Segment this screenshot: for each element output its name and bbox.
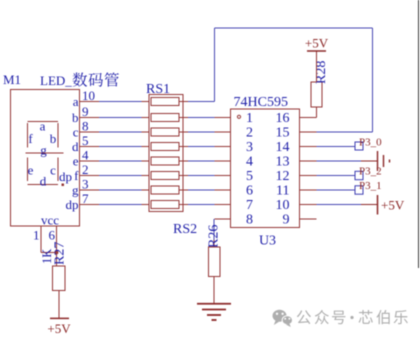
M1 pin f stub	[80, 175, 100, 177]
wire U3 pin 14 to port P3_0	[317, 146, 356, 148]
M1 pin b stub	[80, 117, 100, 119]
svg-text:4: 4	[82, 148, 89, 163]
wire R26 to ground	[213, 277, 215, 304]
U3 pin 3 stub	[215, 146, 231, 148]
label 数 (CJK)	[73, 73, 88, 87]
svg-text:M1: M1	[3, 72, 21, 87]
RS1 resistor element 8	[151, 201, 179, 209]
svg-text:3: 3	[82, 177, 89, 192]
port P3_1 square	[355, 186, 363, 194]
svg-text:d: d	[72, 139, 79, 154]
wire seg-e M1 to RS1	[99, 160, 142, 162]
wire U3 pin 12 to port P3_2	[317, 175, 356, 177]
svg-text:2: 2	[246, 126, 253, 141]
svg-text:14: 14	[276, 140, 290, 155]
RS1 resistor element 1	[151, 98, 179, 106]
RS1 left pin stub 6	[142, 175, 150, 177]
watermark WeChat logo	[273, 310, 293, 327]
RS1 left pin stub 8	[142, 204, 150, 206]
wire +5V to R28	[316, 51, 318, 82]
power +5V bar (top)	[307, 50, 326, 52]
svg-text:8: 8	[82, 119, 89, 134]
junction dot	[55, 251, 59, 255]
RS1 left pin stub 3	[142, 131, 150, 133]
watermark char 众	[315, 310, 329, 324]
svg-text:f: f	[28, 131, 33, 146]
svg-text:P3_2: P3_2	[359, 166, 382, 178]
svg-text:b: b	[50, 131, 57, 146]
svg-text:+5V: +5V	[47, 321, 71, 336]
svg-text:RS2: RS2	[173, 222, 197, 237]
wire right drop to pin 15	[372, 28, 374, 132]
svg-text:16: 16	[276, 111, 290, 126]
wire seg-d RS1 to U3 pin 3	[188, 146, 215, 148]
RS1 right pin stub 3	[179, 131, 188, 133]
ground bar 4	[212, 319, 217, 321]
wire U3 pin 10 to +5V	[317, 204, 362, 206]
wire seg-c M1 to RS1	[99, 131, 142, 133]
label 码 (CJK)	[88, 73, 103, 87]
watermark char 芯	[359, 310, 373, 324]
svg-text:P3_0: P3_0	[359, 137, 382, 149]
U3 pin 6 stub	[215, 189, 231, 191]
U3 pin 7 stub	[215, 204, 231, 206]
wire U3 pin 11 to port P3_1	[317, 189, 356, 191]
wire seg-e RS1 to U3 pin 4	[188, 160, 215, 162]
M1 pin a stub	[80, 101, 100, 103]
U3 pin 10 stub	[300, 204, 317, 206]
svg-text:6: 6	[49, 228, 56, 243]
svg-text:+5V: +5V	[381, 198, 405, 213]
svg-text:5: 5	[246, 169, 253, 184]
wire R28 to pin 16	[316, 107, 318, 118]
watermark char 号	[332, 311, 345, 325]
svg-text:15: 15	[276, 126, 290, 141]
watermark char 伯	[377, 310, 390, 324]
RS1 right pin stub 2	[179, 117, 188, 119]
RS1 left pin stub 2	[142, 117, 150, 119]
wire top horizontal	[215, 27, 373, 29]
svg-text:5: 5	[82, 133, 89, 148]
wire seg-a M1 to RS1	[99, 101, 142, 103]
M1 pin c stub	[80, 131, 100, 133]
svg-text:c: c	[50, 163, 56, 178]
segment d bar	[28, 184, 59, 186]
RS1 resistor element 6	[151, 172, 179, 180]
svg-text:b: b	[72, 110, 79, 125]
RS1 left pin stub 7	[142, 189, 150, 191]
svg-text:9: 9	[283, 213, 290, 228]
segment a bar	[28, 121, 59, 123]
U3 pin 14 stub	[300, 146, 317, 148]
ground lead (pin 13)	[361, 160, 377, 162]
svg-text:dp: dp	[59, 169, 72, 184]
U3 pin 13 stub	[300, 160, 317, 162]
U3 pin 11 stub	[300, 189, 317, 191]
watermark char 公	[297, 310, 311, 324]
wire seg-g M1 to RS1	[99, 189, 142, 191]
svg-text:R26: R26	[207, 225, 222, 248]
svg-text:7: 7	[82, 191, 89, 206]
IC U3 body	[231, 109, 300, 228]
segment f bar	[27, 123, 29, 148]
U3 pin 5 stub	[215, 175, 231, 177]
wire seg-g RS1 to U3 pin 6	[188, 189, 215, 191]
svg-text:e: e	[73, 154, 79, 169]
svg-text:P3_1: P3_1	[359, 180, 382, 192]
svg-text:3: 3	[246, 140, 253, 155]
wire seg-c RS1 to U3 pin 2	[188, 131, 215, 133]
ground bar 1	[197, 303, 231, 305]
wire seg-a RS1 to riser	[188, 101, 215, 103]
RS1 right pin stub 4	[179, 146, 188, 148]
M1 pin e stub	[80, 160, 100, 162]
segment e bar	[27, 158, 29, 182]
segment dp dot	[62, 184, 65, 187]
svg-text:1: 1	[246, 111, 253, 126]
U3 pin 4 stub	[215, 160, 231, 162]
U3 pin 2 stub	[215, 131, 231, 133]
wire seg-f M1 to RS1	[99, 175, 142, 177]
svg-text:10: 10	[276, 198, 290, 213]
RS1 right pin stub 7	[179, 189, 188, 191]
wire seg-dp RS1 to U3 pin 7	[188, 204, 215, 206]
svg-text:a: a	[73, 94, 79, 109]
wire seg-dp M1 to RS1	[99, 204, 142, 206]
window border line	[418, 0, 420, 268]
RS1 resistor element 2	[151, 114, 179, 122]
ground bar 2 (rotated)	[383, 155, 385, 167]
U3 pin 1 stub	[215, 117, 231, 119]
power +5V bar (bottom)	[50, 317, 69, 319]
segment b bar	[57, 123, 59, 148]
watermark char 乐	[394, 310, 408, 324]
RS1 right pin stub 6	[179, 175, 188, 177]
RS1 right pin stub 8	[179, 204, 188, 206]
svg-text:R27: R27	[53, 242, 68, 265]
ground bar 3 (rotated)	[389, 160, 391, 163]
svg-text:a: a	[40, 119, 46, 134]
port P3_2 square	[355, 171, 363, 179]
svg-text:1: 1	[33, 228, 40, 243]
wire R27 to +5V	[58, 291, 60, 319]
svg-text:13: 13	[276, 155, 290, 170]
port P3_0 square	[355, 142, 363, 150]
svg-text:dp: dp	[66, 197, 79, 212]
U3 pin 16 stub	[300, 117, 317, 119]
wire U3 pin 8 to R26	[213, 219, 215, 240]
svg-text:f: f	[74, 168, 79, 183]
M1 pin 6 lead to R27	[56, 226, 58, 266]
resistor R26 body	[209, 247, 221, 277]
svg-text:vcc: vcc	[41, 213, 59, 228]
wire seg-d M1 to RS1	[99, 146, 142, 148]
segment g bar	[26, 152, 64, 154]
wire seg-f RS1 to U3 pin 5	[188, 175, 215, 177]
wire seg-b M1 to RS1	[99, 117, 142, 119]
svg-text:6: 6	[246, 184, 253, 199]
RS1 resistor element 7	[151, 186, 179, 194]
wire U3 pin 13 to ground	[317, 160, 362, 162]
U3 pin 9 stub	[300, 218, 317, 220]
U3 pin 15 stub	[300, 131, 317, 133]
U3 pin 8 stub	[215, 218, 231, 220]
M1 pin dp stub	[80, 204, 100, 206]
ground bar 3	[207, 314, 221, 316]
RS1 left pin stub 4	[142, 146, 150, 148]
watermark middle dot	[350, 316, 353, 319]
RS1 right pin stub 1	[179, 101, 188, 103]
resistor-pack RS1 body	[149, 95, 183, 212]
M1 pin d stub	[80, 146, 100, 148]
svg-text:74HC595: 74HC595	[234, 95, 288, 110]
segment c bar	[57, 158, 59, 182]
svg-text:g: g	[72, 183, 79, 198]
R26 top lead	[213, 240, 215, 247]
power +5V bar (right)	[377, 195, 379, 215]
svg-text:e: e	[28, 163, 34, 178]
svg-text:9: 9	[82, 104, 89, 119]
svg-text:LED_: LED_	[40, 73, 72, 88]
RS1 left pin stub 5	[142, 160, 150, 162]
wire riser at x=214	[214, 28, 216, 102]
U3 pin 1 dot circle	[237, 115, 240, 118]
svg-text:g: g	[40, 143, 47, 158]
wire into U3 pin 15	[317, 131, 373, 133]
M1 pin 1 lead	[40, 226, 42, 253]
RS1 resistor element 5	[151, 157, 179, 165]
power +5V lead (right)	[361, 204, 377, 206]
resistor R28 body	[311, 82, 322, 107]
svg-text:d: d	[40, 174, 47, 189]
svg-text:U3: U3	[259, 234, 276, 249]
RS1 resistor element 4	[151, 143, 179, 151]
svg-text:11: 11	[276, 184, 289, 199]
svg-text:12: 12	[276, 169, 290, 184]
wire pin1 to pin6 net	[41, 252, 57, 254]
U3 pin 12 stub	[300, 175, 317, 177]
wire seg-b RS1 to U3 pin 1	[188, 117, 215, 119]
display M1 body	[11, 90, 80, 227]
svg-text:4: 4	[246, 155, 253, 170]
svg-text:7: 7	[246, 198, 253, 213]
RS1 left pin stub 1	[142, 101, 150, 103]
svg-text:+5V: +5V	[305, 36, 329, 51]
ground bar 1 (rotated)	[377, 151, 379, 171]
resistor R27 body	[53, 266, 66, 291]
RS1 resistor element 3	[151, 128, 179, 136]
RS1 right pin stub 5	[179, 160, 188, 162]
M1 pin g stub	[80, 189, 100, 191]
ground bar 2	[202, 309, 226, 311]
svg-text:2: 2	[82, 162, 89, 177]
svg-text:c: c	[73, 125, 79, 140]
svg-text:8: 8	[246, 213, 253, 228]
label 管 (CJK)	[105, 72, 119, 86]
svg-text:10: 10	[82, 88, 95, 103]
